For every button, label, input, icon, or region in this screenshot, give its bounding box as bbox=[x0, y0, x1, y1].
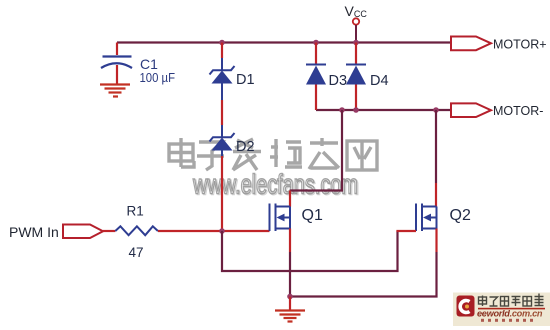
zener diode D2 bbox=[210, 125, 235, 156]
Vcc supply bbox=[353, 18, 359, 42]
wire (rail to D1) bbox=[221, 43, 223, 59]
char 1 dian bbox=[169, 144, 193, 161]
wire (Q1 source down) bbox=[289, 229, 291, 253]
node dot (top rail / D1) bbox=[219, 40, 225, 46]
svg-text:R1: R1 bbox=[127, 204, 144, 219]
diode D4 bbox=[346, 65, 366, 85]
svg-text:eeworld.com.cn: eeworld.com.cn bbox=[477, 309, 543, 319]
ground (C1) bbox=[100, 85, 130, 97]
MOTOR- rail wire bbox=[316, 109, 451, 111]
node dot (ground junction) bbox=[287, 294, 293, 300]
svg-text:MOTOR+: MOTOR+ bbox=[493, 38, 547, 52]
wire (MOTOR- rail down to Q1 drain) bbox=[290, 110, 342, 191]
wire (D1 to D2) bbox=[221, 100, 223, 125]
capacitor C1 bbox=[101, 43, 132, 85]
char 4 shao bbox=[270, 139, 278, 167]
char 5 you bbox=[309, 138, 339, 169]
MOSFET Q2 bbox=[416, 204, 437, 232]
node dot (MOTOR- rail / D4) bbox=[353, 107, 359, 113]
node dot (gate junction) bbox=[219, 228, 225, 234]
wire (D3 to MOTOR- rail) bbox=[315, 85, 317, 111]
svg-text:D1: D1 bbox=[236, 72, 255, 88]
top rail wire bbox=[117, 41, 451, 43]
svg-text:D3: D3 bbox=[329, 73, 348, 89]
logo chinese title (pseudo strokes) bbox=[479, 294, 544, 307]
svg-text:Q1: Q1 bbox=[302, 207, 323, 224]
svg-text:www.elecfans.com: www.elecfans.com bbox=[192, 169, 358, 200]
wire (MOTOR- rail down to Q2 drain) bbox=[435, 110, 437, 183]
connector MOTOR+ bbox=[451, 37, 491, 51]
wire (D2 to gate node) bbox=[221, 156, 223, 231]
svg-text:100 µF: 100 µF bbox=[140, 70, 176, 85]
svg-text:MOTOR-: MOTOR- bbox=[493, 104, 543, 118]
svg-text:D4: D4 bbox=[370, 73, 389, 89]
node dot (MOTOR- rail / Q1 drain drop) bbox=[339, 107, 345, 113]
connector MOTOR- bbox=[451, 103, 491, 117]
node dot (top rail / D3) bbox=[313, 40, 319, 46]
wire (rail to D3) bbox=[315, 43, 317, 65]
ground (main) bbox=[275, 311, 305, 322]
MOSFET Q1 bbox=[270, 204, 291, 232]
wire (source link to Q2) bbox=[290, 252, 437, 297]
char 3 fa bbox=[235, 139, 253, 148]
wire (R1 to Q1 gate) bbox=[158, 230, 270, 232]
node dot (top rail / Vcc-D4) bbox=[353, 40, 359, 46]
resistor R1 bbox=[115, 226, 158, 235]
watermark chinese characters bbox=[169, 138, 377, 170]
node dot (MOTOR- rail / Q2 drain drop) bbox=[433, 107, 439, 113]
zener diode D1 bbox=[210, 58, 235, 100]
wire (Q2 source stub) bbox=[435, 229, 437, 253]
char 2 zi bbox=[199, 142, 222, 170]
wire (Q2 drain stub) bbox=[435, 183, 437, 207]
wire (to ground) bbox=[289, 297, 291, 311]
svg-text:47: 47 bbox=[129, 245, 144, 260]
svg-text:PWM In: PWM In bbox=[9, 224, 59, 240]
wire (Q1 drain stub) bbox=[289, 191, 291, 207]
wire (rail to D4) bbox=[355, 43, 357, 65]
wire (gate run: junction down, across, up to Q2 gate) bbox=[222, 231, 398, 271]
connector PWM In bbox=[63, 225, 103, 239]
diode D3 bbox=[306, 65, 326, 85]
char 6 wang bbox=[347, 141, 377, 170]
wire (up to Q2 gate) bbox=[398, 231, 417, 232]
svg-text:Q2: Q2 bbox=[450, 207, 471, 224]
svg-text:D2: D2 bbox=[236, 139, 255, 155]
eeworld logo block bbox=[453, 293, 550, 327]
wire (D4 to MOTOR- rail) bbox=[355, 85, 357, 111]
wire (connector to R1) bbox=[103, 230, 115, 232]
